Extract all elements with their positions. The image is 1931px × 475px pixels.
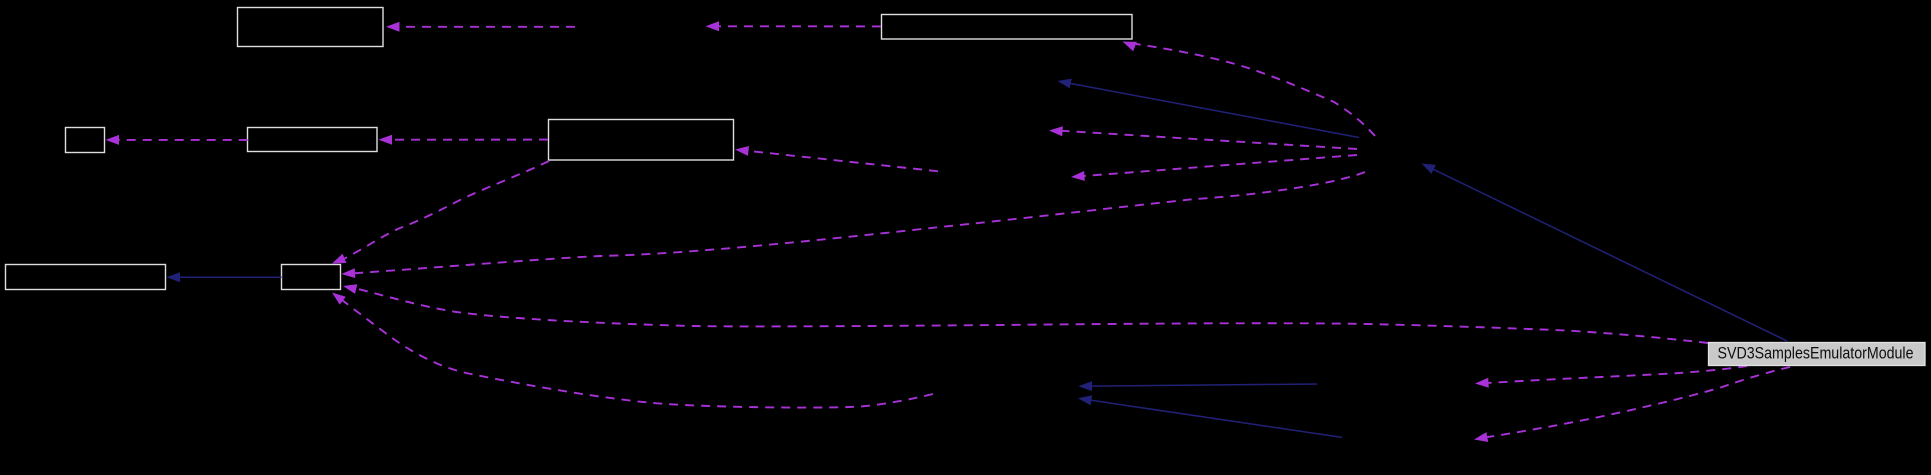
svg-text:SVD3SamplesEmulatorModule: SVD3SamplesEmulatorModule [1718, 344, 1914, 363]
dashed edge box-B to hidden N5 [706, 21, 882, 31]
node box-B (top-middle, unlabeled) [882, 15, 1133, 40]
node box-C (tiny, row2 left) [66, 128, 105, 153]
blue edge SVD3SamplesEmulatorModule to hidden hub node [1422, 164, 1788, 342]
dashed edge hub to box-B corner [1123, 42, 1376, 137]
dashed edge hub to hidden N7 [1071, 155, 1357, 181]
blue edge hidden N2 to hidden N3 [1078, 395, 1342, 437]
blue edge hub to hidden node N4 [1058, 79, 1360, 138]
dashed edge hidden N3 to box-G [332, 293, 933, 408]
node box-G (bottom small) [282, 265, 341, 290]
dashed edge SVD3SamplesEmulatorModule to hidden N2 [1474, 367, 1790, 442]
blue edge hidden N1 to hidden N3 [1079, 381, 1318, 391]
node SVD3SamplesEmulatorModule (highlighted) [1709, 343, 1926, 366]
dashed edge hub to hidden N6 [1049, 126, 1357, 149]
dashed edge box-D to box-C [106, 135, 248, 145]
dashed edge hub to box-G (upper long line) [342, 172, 1366, 278]
node box-D (row2 middle) [248, 128, 378, 152]
dashed edge SVD3SamplesEmulatorModule to box-G (long bottom curve) [343, 284, 1708, 343]
dashed edge hidden N7 to box-E [735, 146, 938, 171]
blue edge box-G to box-F [167, 272, 282, 282]
dashed edge hidden N5 to box-A [386, 22, 575, 32]
node box-F (bottom-left wide) [6, 265, 166, 290]
dashed edge box-E to box-G (left curve) [332, 161, 549, 264]
node box-A (top-left, unlabeled) [238, 8, 384, 47]
node box-E (row2 right, two-line) [549, 120, 734, 161]
dashed edge SVD3SamplesEmulatorModule to hidden N1 [1475, 366, 1747, 388]
dashed edge box-E to box-D [379, 135, 549, 145]
